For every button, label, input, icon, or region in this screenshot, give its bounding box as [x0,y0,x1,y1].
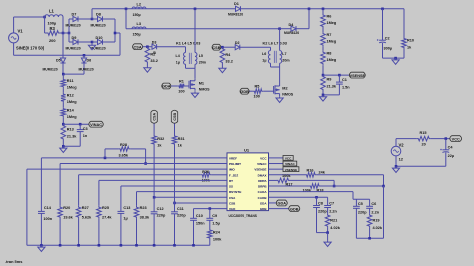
svg-text:IMO: IMO [229,168,235,172]
svg-text:100µ: 100µ [48,21,58,26]
svg-text:CAOA: CAOA [258,190,268,194]
svg-text:K1 L4 L5 0.03: K1 L4 L5 0.03 [176,41,200,45]
svg-text:38.3k: 38.3k [140,216,150,220]
svg-text:R23: R23 [140,206,147,210]
svg-text:27.4k: 27.4k [102,216,112,220]
svg-text:20: 20 [422,143,426,147]
svg-text:L5: L5 [199,54,203,58]
svg-text:150µ: 150µ [133,13,141,17]
svg-text:GDB: GDB [260,207,268,211]
svg-text:R26: R26 [202,170,209,174]
svg-text:20m: 20m [282,59,289,63]
svg-text:NMOS: NMOS [199,88,210,92]
svg-text:22µ: 22µ [448,154,454,158]
svg-text:R25: R25 [102,206,110,210]
svg-text:L4: L4 [176,54,180,58]
svg-text:D9: D9 [72,36,77,40]
svg-text:1.5n: 1.5n [342,86,350,90]
svg-text:150µ: 150µ [133,33,141,37]
svg-text:1Meg: 1Meg [327,40,337,44]
svg-text:VSENSE: VSENSE [350,74,366,78]
svg-text:.tran 5ms: .tran 5ms [5,259,23,264]
svg-text:VINAC: VINAC [257,162,267,166]
svg-text:MUR8120: MUR8120 [66,47,81,51]
svg-text:R21: R21 [330,219,338,223]
svg-text:D8: D8 [96,13,101,17]
svg-text:K2 L6 L7 0.03: K2 L6 L7 0.03 [263,41,287,45]
svg-text:100: 100 [254,95,260,99]
svg-text:1.5µ: 1.5µ [212,221,220,225]
svg-text:C8: C8 [318,201,323,205]
svg-text:C2: C2 [385,37,390,41]
svg-text:CSA: CSA [134,45,142,49]
svg-text:19.6k: 19.6k [63,216,73,220]
svg-text:L6: L6 [262,52,266,56]
svg-text:100k: 100k [213,237,222,241]
svg-text:R10: R10 [407,39,414,43]
svg-text:R7: R7 [327,33,332,37]
svg-text:V1: V1 [18,29,24,34]
svg-text:VREF: VREF [229,156,237,160]
svg-text:R9: R9 [327,78,332,82]
svg-text:DRPB: DRPB [258,185,267,189]
svg-text:L7: L7 [282,52,286,56]
svg-text:M1: M1 [199,82,205,86]
svg-text:1n: 1n [83,134,88,138]
svg-text:SINE(0 170 50): SINE(0 170 50) [16,46,45,51]
svg-text:4.02k: 4.02k [330,226,340,230]
svg-text:220p: 220p [177,214,186,218]
svg-text:C9: C9 [212,214,217,218]
svg-text:VAO: VAO [229,207,236,211]
svg-text:D6: D6 [87,59,92,63]
svg-text:2.2n: 2.2n [329,209,337,213]
svg-text:NMOS: NMOS [282,93,293,97]
svg-text:SS: SS [229,185,233,189]
svg-text:R3: R3 [50,26,56,31]
svg-text:MUR8120: MUR8120 [228,12,243,16]
svg-text:R24: R24 [213,230,221,234]
svg-text:3.65k: 3.65k [119,153,129,157]
svg-text:PKLIMIT: PKLIMIT [229,162,241,166]
svg-text:VINAC: VINAC [285,162,295,166]
svg-text:C3: C3 [83,127,88,131]
svg-text:1µ: 1µ [123,217,127,221]
svg-text:33.2: 33.2 [225,59,232,63]
svg-text:R14: R14 [67,109,75,113]
svg-text:DMAX: DMAX [258,173,267,177]
svg-text:VCC: VCC [285,157,292,161]
svg-text:CSA: CSA [229,196,236,200]
svg-text:R12: R12 [67,94,74,98]
svg-text:1Meg: 1Meg [327,58,337,62]
svg-text:R32: R32 [157,137,164,141]
svg-text:D3: D3 [152,40,157,44]
svg-text:1µ: 1µ [262,59,266,63]
svg-text:V2: V2 [399,143,405,148]
svg-text:MUR8120: MUR8120 [43,68,58,72]
svg-text:220p: 220p [157,214,166,218]
svg-text:CAOB: CAOB [258,196,268,200]
svg-text:20m: 20m [199,61,206,65]
svg-text:R19: R19 [373,219,380,223]
svg-text:L2: L2 [137,2,141,6]
svg-text:1Meg: 1Meg [327,21,337,25]
svg-text:33.2: 33.2 [150,59,157,63]
svg-text:MUR8120: MUR8120 [91,24,106,28]
svg-text:4.02k: 4.02k [373,226,383,230]
svg-text:200: 200 [49,38,56,43]
svg-text:D7: D7 [72,13,77,17]
svg-text:CSB: CSB [229,201,236,205]
svg-text:D10: D10 [96,36,103,40]
svg-text:VCC: VCC [260,156,267,160]
svg-text:M2: M2 [282,87,287,91]
svg-text:U1: U1 [244,148,250,153]
svg-text:21.3k: 21.3k [327,85,337,89]
svg-text:2.2n: 2.2n [371,210,379,214]
svg-text:R8: R8 [327,52,332,56]
svg-text:MUR8120: MUR8120 [66,24,81,28]
svg-text:L3: L3 [137,22,141,26]
svg-text:300µ: 300µ [384,47,393,51]
svg-text:R15: R15 [420,131,428,135]
svg-text:C7: C7 [329,201,334,205]
svg-text:GDA: GDA [260,201,268,205]
svg-text:5.62k: 5.62k [82,216,92,220]
svg-text:R6: R6 [327,15,332,19]
svg-text:C12: C12 [157,207,164,211]
svg-text:GDB: GDB [240,90,249,94]
svg-text:D5: D5 [56,59,61,63]
svg-text:100k: 100k [282,174,291,178]
svg-text:GDA: GDA [278,202,287,206]
svg-text:DRPA: DRPA [258,179,267,183]
svg-text:CSA: CSA [153,113,157,121]
svg-text:RT: RT [229,179,233,183]
svg-text:R16: R16 [307,169,314,173]
svg-text:L1: L1 [49,9,55,14]
svg-text:R20: R20 [63,206,70,210]
svg-text:1µ: 1µ [176,61,180,65]
svg-text:VSENSE: VSENSE [254,168,266,172]
svg-text:F_JDZ: F_JDZ [229,173,238,177]
svg-text:VCC: VCC [452,137,460,141]
svg-text:R11: R11 [67,79,75,83]
svg-text:MUR8120: MUR8120 [79,68,94,72]
svg-text:220p: 220p [358,210,367,214]
svg-text:R28: R28 [120,143,127,147]
svg-text:R13: R13 [67,128,74,132]
svg-text:R27: R27 [82,206,89,210]
svg-text:C10: C10 [196,214,203,218]
svg-text:100: 100 [178,89,184,93]
svg-text:R31: R31 [178,137,186,141]
svg-text:1Meg: 1Meg [67,115,77,119]
svg-text:RSYNTH: RSYNTH [229,190,241,194]
svg-text:B: B [153,51,156,55]
svg-text:24k: 24k [319,170,326,174]
svg-text:1Meg: 1Meg [67,100,77,104]
svg-text:150n: 150n [196,221,205,225]
svg-text:C14: C14 [44,206,52,210]
svg-text:VSENSE: VSENSE [285,168,298,172]
svg-text:D2: D2 [235,41,240,45]
svg-text:C6: C6 [371,202,376,206]
svg-text:GDB: GDB [290,207,299,211]
svg-text:1Meg: 1Meg [67,86,77,90]
svg-text:21.3k: 21.3k [67,135,77,139]
svg-text:220p: 220p [318,209,327,213]
svg-text:C13: C13 [123,206,130,210]
svg-text:CSB: CSB [212,46,220,50]
svg-text:CSB: CSB [173,113,177,121]
svg-text:C11: C11 [177,207,185,211]
svg-text:UCC28070_TRANS: UCC28070_TRANS [229,214,257,218]
svg-text:MUR8120: MUR8120 [284,31,299,35]
svg-text:VINAC: VINAC [90,123,102,127]
svg-text:100n: 100n [43,217,52,221]
svg-text:GDA: GDA [162,85,171,89]
